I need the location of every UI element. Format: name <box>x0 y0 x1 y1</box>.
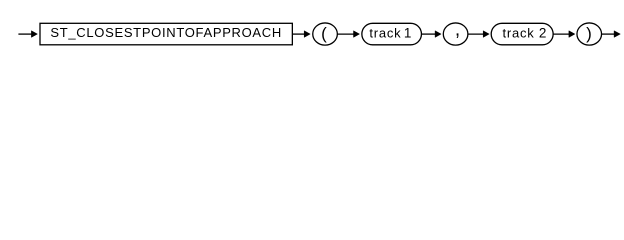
svg-text:1: 1 <box>404 25 412 40</box>
terminal ( <box>313 23 338 45</box>
svg-text:2: 2 <box>539 25 547 40</box>
svg-text:track: track <box>503 25 535 40</box>
entry wire <box>18 31 37 38</box>
wire , to track2 <box>468 31 489 38</box>
terminal ) <box>577 23 602 45</box>
svg-text:track: track <box>369 25 401 40</box>
terminal , <box>443 20 468 46</box>
svg-text:ST_CLOSESTPOINTOFAPPROACH: ST_CLOSESTPOINTOFAPPROACH <box>50 25 282 40</box>
svg-text:,: , <box>455 20 460 41</box>
wire track1 to , <box>421 31 441 38</box>
svg-text:): ) <box>586 24 592 43</box>
wire ( to track1 <box>337 31 359 38</box>
parameter track1 <box>362 23 422 45</box>
parameter track2 <box>491 23 553 45</box>
function box ST_CLOSESTPOINTOFAPPROACH <box>40 23 292 45</box>
svg-text:(: ( <box>321 24 327 43</box>
wire box to ( <box>292 31 310 38</box>
exit wire <box>602 31 621 38</box>
wire track2 to ) <box>553 31 575 38</box>
